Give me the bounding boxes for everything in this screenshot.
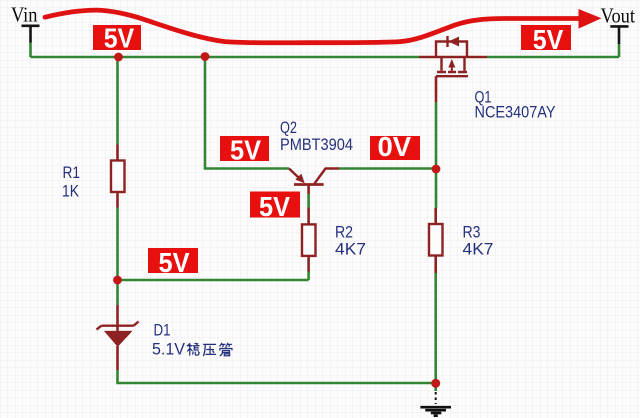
label R1 1K xyxy=(62,163,80,201)
svg-text:R1: R1 xyxy=(63,163,81,182)
wire: second vertical from rail down and right to Q2 emitter xyxy=(205,57,289,169)
svg-text:4K7: 4K7 xyxy=(335,240,366,259)
svg-text:5V: 5V xyxy=(230,135,262,166)
transistor Q2 xyxy=(289,169,339,195)
svg-text:4K7: 4K7 xyxy=(463,240,494,259)
svg-text:PMBT3904: PMBT3904 xyxy=(280,135,353,154)
junction node R1/D1/R2 xyxy=(113,276,122,285)
voltage label 5V at Q2 base xyxy=(250,191,300,222)
svg-text:5.1V: 5.1V xyxy=(152,340,186,359)
resistor R1 xyxy=(111,145,125,208)
junction node gate/R3/collector xyxy=(432,165,441,174)
terminal pin Vout xyxy=(610,26,628,44)
wire: Q2 collector to gate node xyxy=(339,167,436,170)
junction node ground xyxy=(431,379,440,388)
wire: rail through Q1 (component leads) xyxy=(419,56,487,59)
highlight: red current path curve xyxy=(45,9,602,43)
label D1 5.1V zener (5.1V stabilivolt) xyxy=(152,321,232,359)
junction node on rail at x=118.5 xyxy=(114,53,123,62)
voltage label 5V at Q2 emitter xyxy=(220,135,269,166)
label R2 4K7 xyxy=(335,223,366,259)
wire: Q2 base to R2 xyxy=(307,194,310,208)
wire: R1 bottom to node at y=280 xyxy=(116,208,119,281)
voltage label 5V at Vin rail xyxy=(93,23,141,54)
svg-text:5V: 5V xyxy=(104,23,135,54)
svg-text:5V: 5V xyxy=(259,191,291,222)
terminal pin Vin xyxy=(22,26,40,57)
wire: R3 bottom to ground rail xyxy=(434,273,437,383)
wire: node 280 down to D1 xyxy=(116,280,119,305)
mosfet Q1 xyxy=(436,36,468,102)
label Q1 NCE3407AY xyxy=(475,88,556,122)
label Vin xyxy=(11,3,38,27)
label R3 4K7 xyxy=(463,223,494,259)
svg-text:0V: 0V xyxy=(378,131,412,162)
svg-text:Vin: Vin xyxy=(11,3,38,27)
wire: main top rail Vin side (net VIN) xyxy=(31,56,420,59)
label Q2 PMBT3904 xyxy=(280,118,353,154)
svg-text:5V: 5V xyxy=(159,247,191,278)
wire: D1 bottom to ground rail xyxy=(118,370,436,383)
voltage label 5V at zener node xyxy=(148,247,198,278)
svg-text:NCE3407AY: NCE3407AY xyxy=(475,103,556,122)
wire: node 280 horizontal to R2 bottom xyxy=(118,272,309,281)
wire: node down to R3 xyxy=(435,169,438,208)
voltage label 0V at gate node xyxy=(370,131,420,162)
junction node on rail at x=205 xyxy=(201,52,210,61)
ground xyxy=(420,383,451,416)
wire: gate down to node xyxy=(435,102,438,169)
svg-text:Vout: Vout xyxy=(601,4,636,28)
wire: main top rail Vout side xyxy=(487,44,619,57)
resistor R2 xyxy=(302,208,316,272)
label Vout xyxy=(601,4,636,28)
zener diode D1 xyxy=(97,305,139,370)
svg-text:1K: 1K xyxy=(62,182,80,201)
wire: left vertical from rail to R1 xyxy=(116,57,119,145)
svg-text:5V: 5V xyxy=(533,24,564,55)
resistor R3 xyxy=(429,208,443,273)
svg-text:D1: D1 xyxy=(154,321,171,340)
voltage label 5V at Vout rail xyxy=(521,24,571,55)
